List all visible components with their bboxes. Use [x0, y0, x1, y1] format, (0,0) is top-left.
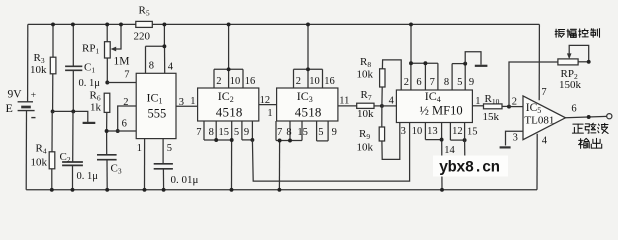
- label C3: [111, 163, 122, 176]
- wire IC2 pin12 to IC3 pin1: [259, 104, 277, 106]
- node RP1 wiper on rail: [119, 22, 123, 26]
- label 4518 IC3: [295, 105, 322, 120]
- wire IC2 pin9 to IC4 pin10: [252, 123, 409, 182]
- wire IC3 pins 7-8-15 ground: [276, 121, 302, 190]
- svg-text:0. 1μ: 0. 1μ: [79, 78, 101, 89]
- node IC4 pin14 join: [463, 138, 467, 142]
- wire IC4 pin1 to R10: [472, 105, 483, 107]
- svg-text:2: 2: [512, 96, 517, 107]
- wire output: [566, 116, 607, 117]
- svg-text:7: 7: [541, 87, 546, 98]
- wire IC1 pin3 to IC2 pin1: [176, 105, 198, 107]
- svg-text:8: 8: [444, 77, 449, 88]
- label pin6 IC4: [416, 77, 421, 88]
- label 555: [148, 107, 167, 121]
- svg-text:6: 6: [416, 77, 421, 88]
- label C1 0.1u: [79, 78, 101, 89]
- label half MF10: [420, 104, 463, 118]
- svg-text:3: 3: [513, 133, 518, 144]
- svg-text:ybx8.cn: ybx8.cn: [439, 158, 500, 176]
- label pin5 IC2: [234, 127, 239, 138]
- wire IC1 pin5: [162, 139, 164, 164]
- svg-text:13: 13: [427, 126, 438, 137]
- svg-text:4518: 4518: [295, 105, 322, 120]
- label pin10 IC2: [230, 76, 241, 87]
- node output: [587, 115, 591, 119]
- svg-text:9: 9: [469, 77, 474, 88]
- svg-text:3: 3: [179, 97, 184, 108]
- potentiometer RP1: [105, 24, 111, 82]
- svg-text:2: 2: [404, 77, 409, 88]
- label pin8 IC4: [444, 77, 449, 88]
- label pin12 IC2: [260, 95, 271, 106]
- node IC3 pin8 bar: [288, 139, 292, 143]
- ground mid-left: [83, 122, 96, 124]
- svg-text:4518: 4518: [216, 105, 243, 120]
- svg-text:555: 555: [148, 107, 167, 121]
- label pin2 IC3: [296, 76, 301, 87]
- label C2: [60, 151, 71, 164]
- svg-text:15k: 15k: [483, 111, 500, 123]
- wire IC2 pins 2-10-16 to V+: [214, 24, 243, 88]
- label RP1 1M: [114, 56, 130, 68]
- resistor R8: [380, 69, 385, 106]
- label pin10 IC4: [412, 126, 423, 137]
- resistor R10: [484, 104, 503, 109]
- node IC4 bar left: [409, 61, 413, 65]
- wire ground bottom rail: [26, 189, 537, 191]
- wire IC4 pin12 link: [450, 123, 464, 141]
- label pin8 IC2: [209, 127, 214, 138]
- node C column junction: [71, 109, 75, 113]
- resistor R5: [136, 21, 153, 27]
- svg-text:150k: 150k: [559, 79, 582, 91]
- label pin6 IC1: [122, 119, 127, 130]
- wire R8 to IC4 pin2: [382, 60, 401, 90]
- wire IC1 pins 8-4 to V+: [146, 24, 165, 73]
- node C1 top on rail: [71, 22, 75, 26]
- svg-text:9V: 9V: [8, 89, 23, 101]
- label RP1: [82, 43, 99, 56]
- wire R9 to IC4 pin3: [382, 123, 400, 160]
- node IC4 riser rail: [409, 22, 413, 26]
- node R6-C3-pin6: [105, 129, 109, 133]
- IC U4 MF10 box: [396, 90, 472, 123]
- svg-text:220: 220: [134, 31, 151, 43]
- svg-text:10k: 10k: [357, 108, 374, 120]
- ground IC5 pin3: [500, 146, 511, 148]
- svg-text:6: 6: [571, 104, 576, 115]
- node IC3 bar: [306, 67, 310, 71]
- label TL081: [524, 114, 554, 126]
- label C1: [84, 62, 95, 75]
- label pin11 IC3: [339, 95, 349, 106]
- label R9: [359, 128, 370, 141]
- label 4518: [216, 105, 243, 120]
- resistor R7: [357, 103, 374, 108]
- label IC5: [526, 102, 542, 115]
- svg-text:10k: 10k: [357, 142, 374, 154]
- label IC2: [218, 89, 234, 104]
- node R4 bottom on rail: [50, 188, 54, 192]
- label pin1 IC3: [267, 108, 272, 119]
- wiper RP1 arrow: [111, 24, 121, 51]
- watermark ybx8.cn: [433, 156, 508, 177]
- wire IC5 pin3: [506, 131, 524, 145]
- svg-text:16: 16: [324, 76, 335, 87]
- svg-text:7: 7: [277, 127, 282, 138]
- svg-text:10k: 10k: [30, 64, 47, 76]
- label R8: [360, 56, 371, 69]
- label pin2 IC1: [123, 97, 128, 108]
- label pin7 IC2: [196, 127, 201, 138]
- svg-text:4: 4: [389, 96, 395, 107]
- wire node to mid ground: [53, 111, 88, 122]
- label R7: [361, 89, 372, 102]
- label pin15 IC2: [219, 127, 230, 138]
- ground pin14 stub: [455, 157, 466, 159]
- node summing junction: [380, 104, 384, 108]
- label pin9 IC4: [469, 77, 474, 88]
- IC U2 4518 box: [198, 88, 259, 121]
- node IC3 riser rail: [306, 22, 310, 26]
- svg-text:15: 15: [219, 127, 230, 138]
- svg-text:1k: 1k: [90, 102, 102, 114]
- label pin16 IC2: [245, 76, 256, 87]
- label pin7 IC3: [277, 127, 282, 138]
- svg-text:10k: 10k: [31, 157, 48, 169]
- wire IC3 pins 2-10-16 to V+: [294, 24, 323, 88]
- svg-text:9: 9: [332, 127, 337, 138]
- label R10 15k: [483, 111, 500, 123]
- label R5: [139, 5, 150, 18]
- node IC4 pin6 bar: [423, 61, 427, 65]
- label IC3: [297, 89, 313, 104]
- svg-text:10: 10: [412, 126, 423, 137]
- wiper RP2: [567, 45, 589, 61]
- label pin15 IC4: [467, 126, 478, 137]
- wire IC4 agnd hook: [465, 52, 481, 65]
- svg-text:1: 1: [267, 108, 272, 119]
- label R3 10k: [30, 64, 47, 76]
- wire IC3 pin5 to pin9: [317, 121, 329, 141]
- wire IC4 pins 8-5-9 bar: [452, 64, 465, 90]
- label pin7 IC4: [430, 77, 435, 88]
- op-amp U5 TL081: [523, 96, 566, 140]
- label RP2: [561, 68, 578, 81]
- wire IC1 pin1 ground: [144, 139, 146, 190]
- node IC1 riser on rail: [162, 22, 166, 26]
- wire IC3 pin11 to R7: [338, 105, 357, 107]
- label pin4 IC1: [168, 62, 174, 73]
- svg-text:12: 12: [452, 126, 463, 137]
- label pin16 IC3: [324, 76, 335, 87]
- wire feedback to RP2: [509, 62, 558, 107]
- wire IC4 pins 6-7 to V+: [411, 24, 438, 90]
- svg-text:8: 8: [286, 127, 291, 138]
- wire R10 to node: [502, 105, 509, 107]
- node pin2-pin6: [116, 129, 120, 133]
- wire IC1 pin2: [118, 106, 137, 131]
- label R9 10k: [357, 142, 374, 154]
- capacitor C3: [97, 131, 117, 190]
- label pin9 IC3: [332, 127, 337, 138]
- label pin12 IC4: [452, 126, 463, 137]
- svg-text:15: 15: [297, 127, 308, 138]
- label pin4 IC5: [542, 136, 548, 147]
- label pin14 IC4: [444, 145, 455, 156]
- wire IC2 pins 7-8-15 ground: [204, 121, 232, 190]
- svg-text:1: 1: [475, 96, 480, 107]
- capacitor 0.01u: [154, 164, 173, 190]
- svg-text:0. 1μ: 0. 1μ: [77, 171, 99, 182]
- node R3 top on rail: [51, 22, 55, 26]
- svg-text:10: 10: [230, 76, 241, 87]
- wire battery branch: [26, 24, 28, 189]
- svg-text:9: 9: [244, 127, 249, 138]
- node C3 bottom on rail: [105, 188, 109, 192]
- svg-text:10k: 10k: [357, 69, 374, 81]
- node C2 bottom on rail: [71, 188, 75, 192]
- wire V+ to IC5 pin7: [538, 24, 540, 100]
- wire node to IC4 pin4: [382, 105, 397, 107]
- node RP1 top on rail: [105, 22, 109, 26]
- label R8 10k: [357, 69, 374, 81]
- node IC3 gnd rail: [277, 188, 281, 192]
- label C2 0.1u: [77, 171, 99, 182]
- label pin13 IC4: [427, 126, 438, 137]
- label pin3 IC1: [179, 97, 184, 108]
- node RP2 output join: [587, 60, 591, 64]
- node IC2 pin5-9: [250, 138, 254, 142]
- label IC4: [425, 89, 441, 104]
- label pin10 IC3: [309, 76, 320, 87]
- label E: [6, 101, 13, 115]
- label IC1: [147, 91, 163, 106]
- label pin2 IC2: [216, 76, 221, 87]
- svg-text:1: 1: [190, 96, 195, 107]
- node IC4 gnd rail: [440, 188, 444, 192]
- label R6 1k: [90, 102, 102, 114]
- IC U3 4518 box: [277, 88, 338, 121]
- node IC2 pin8 bar: [214, 138, 218, 142]
- label pin8 IC3: [286, 127, 291, 138]
- label pin3 IC5: [513, 133, 518, 144]
- potentiometer RP2: [558, 59, 578, 65]
- label R10: [485, 93, 500, 106]
- capacitor C2: [62, 111, 83, 189]
- label + battery: [31, 90, 37, 101]
- node IC1 bar: [162, 44, 166, 48]
- svg-text:E: E: [6, 101, 13, 115]
- label pin5 IC1: [167, 143, 172, 154]
- battery E 9V: [18, 102, 36, 118]
- label R5 220: [134, 31, 151, 43]
- label pin15 IC3: [297, 127, 308, 138]
- svg-text:5: 5: [318, 127, 323, 138]
- label pin1 IC2: [190, 96, 195, 107]
- label pin2 IC4: [404, 77, 409, 88]
- label 9V: [8, 89, 23, 101]
- wire IC5 pin4: [536, 134, 538, 190]
- label R4: [36, 143, 47, 156]
- label 输出: [579, 138, 602, 148]
- label pin5 IC4: [457, 77, 462, 88]
- svg-text:12: 12: [260, 95, 271, 106]
- svg-text:4: 4: [168, 62, 174, 73]
- label pin6 IC5: [571, 104, 576, 115]
- svg-text:8: 8: [209, 127, 214, 138]
- wire IC4 pin14: [464, 123, 466, 158]
- wire IC1 pin7: [107, 82, 136, 84]
- svg-text:16: 16: [245, 76, 256, 87]
- terminal output: [607, 114, 612, 119]
- label pin3 IC4: [401, 126, 406, 137]
- svg-text:10: 10: [309, 76, 320, 87]
- label R3: [34, 52, 45, 65]
- capacitor C1: [65, 24, 82, 111]
- node IC4 pin5 bar: [463, 62, 467, 66]
- resistor R3: [50, 24, 56, 111]
- svg-text:5: 5: [234, 127, 239, 138]
- node 0.01u rail: [162, 188, 166, 192]
- label 振幅控制: [555, 29, 599, 38]
- svg-text:5: 5: [167, 143, 172, 154]
- svg-text:1: 1: [137, 143, 142, 154]
- svg-text:7: 7: [196, 127, 201, 138]
- label 正弦波: [572, 123, 608, 133]
- svg-text:+: +: [31, 90, 37, 101]
- label pin1 IC4: [475, 96, 480, 107]
- wire RP2 right: [578, 61, 589, 63]
- svg-text:14: 14: [444, 145, 455, 156]
- svg-text:TL081: TL081: [524, 114, 554, 126]
- label R4 10k: [31, 157, 48, 169]
- label RP2 150k: [559, 79, 582, 91]
- label pin7 IC1: [124, 70, 129, 81]
- svg-text:½ MF10: ½ MF10: [420, 104, 463, 118]
- label pin2 IC5: [512, 96, 517, 107]
- svg-text:7: 7: [124, 70, 129, 81]
- wire node to pin2: [509, 106, 523, 108]
- svg-text:4: 4: [542, 136, 548, 147]
- node IC4 pin13 join: [440, 138, 444, 142]
- node IC3 gnd T: [278, 139, 282, 143]
- node IC2 riser rail: [227, 22, 231, 26]
- node R3-R4 junction: [51, 109, 55, 113]
- wire IC2 pin5 to pin9: [242, 121, 253, 140]
- label pin8 IC1: [149, 61, 154, 72]
- svg-text:5: 5: [457, 77, 462, 88]
- node IC2 bar: [227, 67, 231, 71]
- wire IC4 pin to ground: [441, 123, 443, 190]
- svg-text:2: 2: [123, 97, 128, 108]
- label pin9 IC2: [244, 127, 249, 138]
- wire IC1 pin6: [107, 130, 137, 132]
- svg-text:1M: 1M: [114, 56, 130, 68]
- svg-text:8: 8: [149, 61, 154, 72]
- label 0.01u: [171, 174, 199, 186]
- svg-text:11: 11: [339, 95, 349, 106]
- label R7 10k: [357, 108, 374, 120]
- label R6: [90, 90, 101, 103]
- wire IC4 pin13 link: [425, 123, 441, 140]
- svg-text:2: 2: [296, 76, 301, 87]
- node IC2 gnd rail: [230, 188, 234, 192]
- svg-text:2: 2: [216, 76, 221, 87]
- node RP1-R6-pin7: [105, 81, 109, 85]
- IC U1 555 box: [136, 73, 176, 138]
- label pin5 IC3: [318, 127, 323, 138]
- svg-text:6: 6: [122, 119, 127, 130]
- ground IC4 agnd: [475, 65, 488, 67]
- svg-text:15: 15: [467, 126, 478, 137]
- svg-text:0. 01μ: 0. 01μ: [171, 174, 199, 186]
- svg-text:7: 7: [430, 77, 435, 88]
- wire R7 to node: [374, 105, 382, 107]
- label pin4 IC4: [389, 96, 395, 107]
- svg-text:3: 3: [401, 126, 406, 137]
- wire V+ top rail: [28, 23, 540, 25]
- node inverting input: [507, 105, 511, 109]
- label pin1 IC1: [137, 143, 142, 154]
- node IC1 pin1 rail: [143, 188, 147, 192]
- resistor R9: [379, 106, 384, 141]
- resistor R6: [104, 93, 110, 131]
- resistor R4: [49, 111, 55, 189]
- label pin7 IC5: [541, 87, 546, 98]
- node IC2 pin15 bar: [230, 138, 234, 142]
